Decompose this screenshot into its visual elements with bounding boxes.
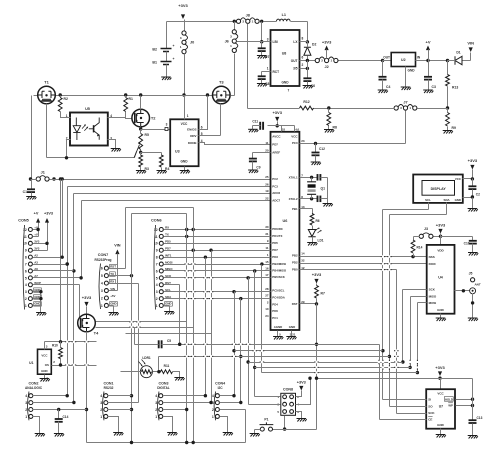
svg-text:10: 10 xyxy=(154,242,158,246)
svg-text:1: 1 xyxy=(100,415,102,419)
wire R11 to ground xyxy=(173,372,180,378)
ground R8 xyxy=(324,130,334,133)
svg-text:+3V3: +3V3 xyxy=(297,381,306,385)
wire CON1 pin1 to ground xyxy=(108,417,119,433)
capacitor C12 xyxy=(315,144,317,153)
svg-text:+3V3: +3V3 xyxy=(435,365,445,370)
ground CON2 pin1 xyxy=(35,434,45,437)
svg-text:VIN: VIN xyxy=(114,244,121,248)
svg-text:R10: R10 xyxy=(52,344,58,348)
wire C10 link xyxy=(441,236,473,238)
wire LDR right node xyxy=(153,371,161,373)
svg-text:PD2: PD2 xyxy=(292,261,298,265)
svg-text:PC4/SDA: PC4/SDA xyxy=(272,296,285,300)
svg-text:6: 6 xyxy=(302,56,304,60)
ground U4 xyxy=(436,318,446,321)
wire CON7 RST link xyxy=(125,208,127,269)
svg-text:R7: R7 xyxy=(321,292,325,296)
wire U4 MOSI west xyxy=(418,302,427,304)
svg-text:2: 2 xyxy=(156,297,158,301)
capacitor C14 xyxy=(58,410,60,420)
wire U4 ANT xyxy=(455,290,470,292)
wire SDA trunk xyxy=(240,299,242,403)
svg-text:XTAL2: XTAL2 xyxy=(289,197,298,201)
wire U7 WP xyxy=(456,405,473,407)
wire U2 GND to ground xyxy=(405,67,407,88)
svg-text:+3V3: +3V3 xyxy=(82,295,92,300)
wire CON1 pin2 xyxy=(108,409,132,411)
wire U2 IN to +V node xyxy=(416,60,448,62)
wire U5 pin1 xyxy=(61,112,71,118)
wire U1 VCC xyxy=(44,342,46,350)
wire display GND xyxy=(463,197,473,199)
wire main switched rail y=95 xyxy=(34,95,38,97)
wire U1 GND xyxy=(44,375,46,379)
svg-text:8: 8 xyxy=(25,256,27,260)
svg-text:PC1: PC1 xyxy=(272,316,278,320)
wire A2 riser xyxy=(62,180,64,258)
svg-text:A2: A2 xyxy=(34,253,38,257)
svg-text:B1: B1 xyxy=(152,61,157,65)
svg-text:ANT: ANT xyxy=(475,283,481,287)
wire CON5 GND pins xyxy=(33,291,41,293)
wire PB0 drop to U7 xyxy=(396,270,398,414)
wire J8 right to C7 node xyxy=(261,22,263,42)
resistor R8 xyxy=(328,109,330,113)
svg-text:+3V3: +3V3 xyxy=(44,212,53,216)
svg-text:+3V3: +3V3 xyxy=(272,110,282,115)
svg-text:OUT: OUT xyxy=(383,56,390,60)
wire CON8 pin6 to ground xyxy=(296,412,302,419)
svg-text:U6: U6 xyxy=(282,219,287,223)
wire CON5 WUP to T4 gate xyxy=(33,284,80,286)
ground CON5 xyxy=(36,313,46,316)
wire CON6 GND xyxy=(164,305,170,307)
svg-text:GND: GND xyxy=(437,308,445,312)
svg-text:3: 3 xyxy=(101,289,103,293)
resistor R11 xyxy=(161,370,173,374)
svg-text:4: 4 xyxy=(25,394,27,398)
svg-text:7: 7 xyxy=(288,89,290,93)
svg-text:+5V: +5V xyxy=(110,294,115,298)
ground R3 xyxy=(136,171,146,174)
svg-text:EN/OS: EN/OS xyxy=(187,127,196,131)
wire U5 pin4 xyxy=(108,117,126,119)
transistor T4 xyxy=(78,314,96,332)
svg-text:+3V3: +3V3 xyxy=(468,158,478,163)
svg-text:14: 14 xyxy=(301,252,305,256)
wire U7 SI xyxy=(383,399,427,401)
svg-text:RS232: RS232 xyxy=(104,386,114,390)
crystal Q1 with load caps xyxy=(300,177,318,179)
transistor T3 (P-MOSFET) xyxy=(213,86,231,104)
svg-text:R11: R11 xyxy=(164,364,170,368)
svg-text:1: 1 xyxy=(101,304,103,308)
ground ANT xyxy=(468,318,478,321)
svg-text:8: 8 xyxy=(156,256,158,260)
svg-text:U4: U4 xyxy=(438,276,443,280)
ground C14 xyxy=(54,434,64,437)
svg-text:2: 2 xyxy=(212,408,214,412)
ground P1 xyxy=(250,434,260,437)
battery B2 xyxy=(166,22,168,49)
wire SDA riser right xyxy=(389,215,391,407)
svg-text:3: 3 xyxy=(155,401,157,405)
wire U7 VCC xyxy=(440,379,442,390)
svg-text:26: 26 xyxy=(265,182,269,186)
svg-text:CON8: CON8 xyxy=(283,388,293,392)
svg-text:1: 1 xyxy=(156,304,158,308)
wire xtal caps to ground xyxy=(321,177,328,179)
svg-text:PD1/TX: PD1/TX xyxy=(272,234,282,238)
wire CON4 pin1 to ground xyxy=(220,417,228,433)
antenna connector ANT xyxy=(470,288,476,294)
wire L1 left xyxy=(264,21,277,23)
wire PC3 net y=186.2 xyxy=(68,186,271,188)
wire J7 right to R13 xyxy=(418,108,448,110)
svg-text:+3V3: +3V3 xyxy=(436,223,446,228)
svg-text:4,6: 4,6 xyxy=(295,128,299,132)
wire U7 SO xyxy=(390,406,427,408)
svg-text:3: 3 xyxy=(166,123,168,127)
wire J6 bottom to T3 drain xyxy=(234,54,236,96)
capacitor C2 xyxy=(472,179,474,187)
ground CON6 xyxy=(164,312,174,315)
svg-text:20: 20 xyxy=(265,149,269,153)
wire sensor supply y=341.8 xyxy=(45,341,97,343)
svg-text:WP: WP xyxy=(448,404,453,408)
svg-text:R9: R9 xyxy=(452,126,456,130)
wire RST to P1 xyxy=(273,429,317,431)
wire band to U7 SI xyxy=(235,350,383,352)
svg-text:CE: CE xyxy=(428,417,432,421)
wire SCL riser right xyxy=(382,210,384,400)
svg-text:PC0: PC0 xyxy=(292,141,298,145)
svg-text:CON2: CON2 xyxy=(29,382,39,386)
svg-text:U8: U8 xyxy=(282,52,287,56)
capacitor C13 xyxy=(469,420,477,423)
wire U7 GND xyxy=(440,429,442,435)
svg-text:R12: R12 xyxy=(303,100,309,104)
wire CON4 pin3 xyxy=(220,402,241,404)
svg-text:DIGITAL: DIGITAL xyxy=(157,386,170,390)
capacitor C4 xyxy=(382,61,384,77)
ground C6 xyxy=(303,86,313,89)
svg-text:1: 1 xyxy=(267,67,269,71)
wire T3 gate from DRV xyxy=(220,104,222,136)
svg-text:RS232Prog: RS232Prog xyxy=(94,258,111,262)
ground C10 xyxy=(468,253,478,256)
svg-text:C11: C11 xyxy=(252,120,258,124)
ground LD1 xyxy=(307,243,317,246)
svg-text:U3: U3 xyxy=(175,150,180,154)
svg-text:19: 19 xyxy=(265,189,269,193)
svg-text:R2: R2 xyxy=(64,97,68,101)
wire U1 OS row xyxy=(52,365,97,367)
svg-text:31: 31 xyxy=(265,232,269,236)
wire T1 source down left xyxy=(31,96,33,180)
wire R5 bottom node xyxy=(140,150,142,153)
svg-text:3: 3 xyxy=(156,290,158,294)
svg-text:RX: RX xyxy=(110,279,114,283)
svg-text:CON6: CON6 xyxy=(151,219,162,223)
svg-text:3: 3 xyxy=(212,401,214,405)
svg-text:R14: R14 xyxy=(417,246,423,250)
svg-text:VCC: VCC xyxy=(437,392,444,396)
svg-text:27: 27 xyxy=(265,294,269,298)
sensor U1 xyxy=(38,349,52,374)
capacitor C3 xyxy=(428,61,430,77)
svg-text:SCK: SCK xyxy=(428,411,435,415)
svg-text:C12: C12 xyxy=(319,147,325,151)
wire P1 left to ground xyxy=(255,429,261,431)
svg-text:+3V3: +3V3 xyxy=(178,3,188,8)
photoresistor LDR1 xyxy=(140,366,152,378)
svg-text:18: 18 xyxy=(282,128,286,132)
resistor R6 xyxy=(310,214,314,226)
svg-text:SO: SO xyxy=(428,404,433,408)
wire CON8 pin3 SCK xyxy=(249,404,281,406)
svg-text:6: 6 xyxy=(201,126,203,130)
svg-text:11: 11 xyxy=(23,235,27,239)
svg-text:L1: L1 xyxy=(282,13,286,17)
svg-text:2: 2 xyxy=(302,63,304,67)
wire C5 left riser xyxy=(134,328,136,345)
svg-text:12: 12 xyxy=(23,228,27,232)
svg-text:GND: GND xyxy=(408,69,416,73)
wire long vertical from J1 to R10 xyxy=(60,180,62,342)
wire CON6 MOSI row xyxy=(164,264,271,266)
svg-text:HOLD: HOLD xyxy=(445,397,453,401)
svg-text:AGND: AGND xyxy=(274,325,283,329)
svg-text:PB4/MISO: PB4/MISO xyxy=(272,268,287,272)
svg-text:C3: C3 xyxy=(432,85,436,89)
wire display SCL down xyxy=(428,203,430,210)
resistor R12 xyxy=(300,106,314,110)
svg-text:AVCC: AVCC xyxy=(272,135,281,139)
ground U3 xyxy=(180,171,190,174)
wire U3 GND xyxy=(184,167,186,171)
wire A3 riser xyxy=(67,187,69,265)
svg-text:3: 3 xyxy=(25,401,27,405)
svg-text:R13: R13 xyxy=(452,86,458,90)
svg-text:1: 1 xyxy=(25,415,27,419)
wire MOSI drop xyxy=(417,303,419,373)
capacitor XTAL1 load xyxy=(318,174,321,181)
svg-text:+3V3: +3V3 xyxy=(312,272,322,277)
svg-text:32: 32 xyxy=(301,259,305,263)
MCU U6 xyxy=(271,132,300,330)
capacitor C6 xyxy=(303,78,311,81)
wire display SDA down xyxy=(446,203,448,215)
wire J7 mid down to PC0 net xyxy=(405,111,407,144)
svg-text:PD0/RX: PD0/RX xyxy=(272,227,283,231)
svg-text:2: 2 xyxy=(100,408,102,412)
wire CON1 pin4 xyxy=(108,395,132,397)
wire CON5 A7 xyxy=(33,277,82,279)
wire SCL trunk xyxy=(234,292,236,396)
svg-text:6: 6 xyxy=(25,269,27,273)
wire T2 source to EN node xyxy=(140,127,142,130)
wire PB1 to R6 xyxy=(300,208,313,210)
svg-text:3V3: 3V3 xyxy=(34,246,40,250)
ground C11 xyxy=(248,129,258,132)
jumper J6 xyxy=(232,30,236,34)
wire U7 VCC rail xyxy=(317,378,473,380)
svg-text:PD7: PD7 xyxy=(165,246,171,250)
svg-text:CON4: CON4 xyxy=(215,382,225,386)
svg-text:1: 1 xyxy=(212,415,214,419)
svg-text:6: 6 xyxy=(156,269,158,273)
svg-text:25: 25 xyxy=(265,175,269,179)
svg-text:T1: T1 xyxy=(44,80,49,85)
wire CON2 pin1 to ground xyxy=(33,417,40,434)
svg-text:ADC6: ADC6 xyxy=(272,191,280,195)
svg-text:J7: J7 xyxy=(403,100,407,104)
svg-text:DRV: DRV xyxy=(190,134,196,138)
wire CON3 pin1 to ground xyxy=(164,417,173,433)
wire CON1 trunk left xyxy=(131,276,133,443)
svg-text:PD7: PD7 xyxy=(272,248,278,252)
wire U3 VCC from rail xyxy=(184,96,186,120)
svg-text:10: 10 xyxy=(23,242,27,246)
capacitor C7 xyxy=(261,42,263,49)
ground U7 xyxy=(436,435,446,438)
wire CON2 pin2 xyxy=(33,409,87,411)
capacitor C8 xyxy=(258,76,266,79)
wire MOSI trunk xyxy=(261,265,263,373)
wire CON6 SDA row xyxy=(164,298,271,300)
wire CON7 TX link xyxy=(131,214,133,276)
svg-text:+V: +V xyxy=(34,212,39,216)
svg-text:VCC: VCC xyxy=(291,135,298,139)
ground below batteries xyxy=(161,77,171,80)
jumper J2 xyxy=(315,58,319,62)
wire T2 drain to rail xyxy=(140,96,142,110)
svg-text:1: 1 xyxy=(155,415,157,419)
svg-text:PB0: PB0 xyxy=(292,268,298,272)
svg-text:LBI: LBI xyxy=(273,40,278,44)
wire ADC7 net y=200.2 xyxy=(82,200,271,202)
svg-text:I2C: I2C xyxy=(218,386,224,390)
wire ANT shield to ground xyxy=(472,294,474,319)
ground C1 xyxy=(26,197,36,200)
svg-text:3: 3 xyxy=(25,290,27,294)
wire U3 DRV to T3 gate xyxy=(199,135,221,137)
svg-text:NSS: NSS xyxy=(429,255,435,259)
svg-text:28: 28 xyxy=(265,287,269,291)
wire R1 to T2 gate node xyxy=(125,112,127,118)
wire J0 bottom to main rail xyxy=(184,54,186,96)
wire U3 pin6 up to rail xyxy=(199,96,208,130)
capacitor C10 xyxy=(469,241,477,244)
svg-text:VCC: VCC xyxy=(41,354,48,358)
wire T1 gate down xyxy=(46,104,48,158)
wire CON6 SCL row xyxy=(164,291,271,293)
wire J3 right to +3V3 xyxy=(434,236,441,238)
ground C3 xyxy=(423,90,433,93)
svg-text:PD4: PD4 xyxy=(272,303,278,307)
wire gate net y=157.8 xyxy=(47,157,67,159)
svg-text:A3: A3 xyxy=(34,260,38,264)
resistor R2 xyxy=(60,96,62,98)
jumper J3 xyxy=(419,234,423,238)
svg-text:Q1: Q1 xyxy=(321,187,326,191)
svg-text:DONE: DONE xyxy=(188,141,197,145)
svg-text:J1: J1 xyxy=(41,171,45,175)
wire CON6 INT1 row xyxy=(164,257,271,259)
capacitor C1 xyxy=(31,180,33,190)
svg-text:C13: C13 xyxy=(477,416,483,420)
wire CON3 pin4 xyxy=(164,395,206,397)
svg-text:SCL: SCL xyxy=(425,198,431,202)
wire CON5 A3 xyxy=(33,264,68,266)
svg-text:+: + xyxy=(173,44,175,48)
wire CON6 RX row xyxy=(164,229,271,231)
wire RX trunk xyxy=(193,208,195,443)
wire CON1 pin3 xyxy=(108,402,139,404)
svg-text:B2: B2 xyxy=(152,48,157,52)
svg-text:11: 11 xyxy=(265,141,269,145)
+V arrow xyxy=(426,46,430,51)
svg-text:24: 24 xyxy=(265,314,269,318)
svg-text:9: 9 xyxy=(156,249,158,253)
jumper J5 xyxy=(471,278,475,282)
ground C13 xyxy=(468,436,478,439)
svg-text:4: 4 xyxy=(156,283,158,287)
svg-text:+3V3: +3V3 xyxy=(322,40,332,45)
svg-text:16: 16 xyxy=(265,267,269,271)
svg-text:2: 2 xyxy=(155,408,157,412)
wire SCK bus east xyxy=(249,362,403,364)
display module xyxy=(413,175,463,203)
svg-text:PD7: PD7 xyxy=(272,143,278,147)
svg-text:C5: C5 xyxy=(167,339,171,343)
svg-text:10: 10 xyxy=(265,307,269,311)
wire band L1 xyxy=(96,321,187,323)
svg-text:5: 5 xyxy=(101,274,103,278)
wire PB2 to U4 NSS xyxy=(300,256,427,258)
wire LX pin xyxy=(300,41,308,43)
svg-text:C1: C1 xyxy=(23,190,27,194)
svg-text:C4: C4 xyxy=(386,85,390,89)
svg-text:T2: T2 xyxy=(151,116,156,121)
capacitor C5 xyxy=(159,340,162,348)
resistor R13 xyxy=(447,61,449,75)
jumper J8 xyxy=(236,19,240,23)
svg-text:R5: R5 xyxy=(145,133,149,137)
svg-text:7: 7 xyxy=(156,262,158,266)
wire C5 net to U7 CE xyxy=(180,344,380,346)
wire CON4 pin4 xyxy=(220,395,235,397)
svg-text:GND: GND xyxy=(281,81,289,85)
wire U4 MISO west xyxy=(411,296,427,298)
resistor R1 xyxy=(125,96,127,98)
wire CON7 RST xyxy=(109,268,126,270)
wire J8 mid down to R12 line xyxy=(247,24,249,109)
wire MISO trunk xyxy=(254,271,256,397)
jumper J7 xyxy=(394,106,398,110)
wire hop marks xyxy=(129,321,133,324)
svg-text:PB2: PB2 xyxy=(292,254,298,258)
wire T3 right up to J6 xyxy=(231,95,235,97)
wire PC0 to C12 node xyxy=(300,143,316,145)
wire CON2 pin3 xyxy=(33,402,74,404)
svg-text:INT1: INT1 xyxy=(165,253,172,257)
svg-text:5: 5 xyxy=(156,276,158,280)
svg-text:CON7: CON7 xyxy=(98,253,109,257)
wire CON7 TX xyxy=(109,275,132,277)
